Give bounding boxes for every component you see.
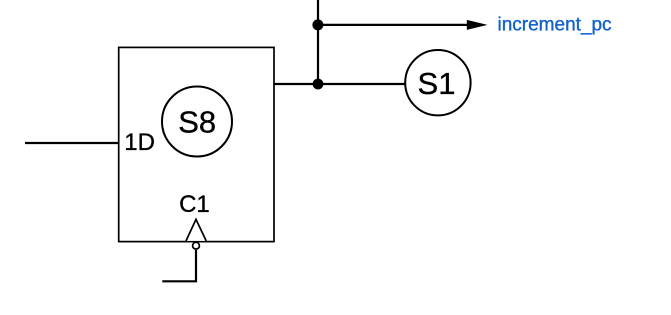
svg-text:increment_pc: increment_pc <box>498 15 612 36</box>
svg-text:S1: S1 <box>418 66 456 101</box>
clock dynamic-input triangle <box>186 219 206 241</box>
state bubble S8 <box>162 87 232 157</box>
junction dot at output node <box>313 79 324 90</box>
svg-text:S8: S8 <box>178 105 216 140</box>
svg-text:C1: C1 <box>179 191 210 218</box>
wire: clock input L-shape <box>162 250 196 281</box>
register block U1 (D flip-flop body) <box>119 47 274 241</box>
negation bubble on clock pin <box>193 242 200 249</box>
wire: 1D input from left <box>25 142 119 144</box>
svg-text:1D: 1D <box>124 129 155 156</box>
arrowhead of increment_pc <box>467 20 488 30</box>
wire: branch to increment_pc arrow <box>318 24 468 26</box>
wire: Q output from block to node <box>274 83 318 85</box>
junction dot at increment_pc branch <box>312 19 323 30</box>
state bubble S1 <box>405 50 470 115</box>
wire: node to state bubble S1 <box>318 83 405 85</box>
wire: vertical feed from top edge <box>317 0 319 84</box>
